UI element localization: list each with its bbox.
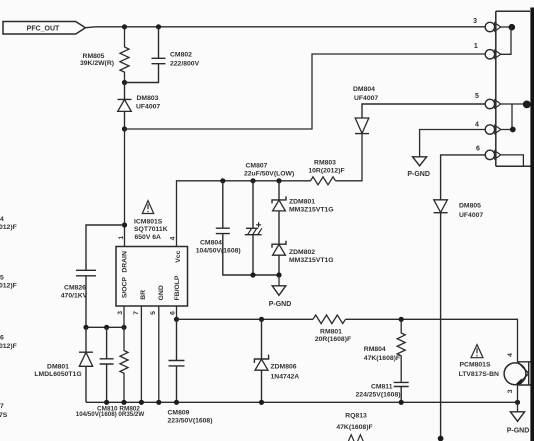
svg-text:6: 6 — [476, 146, 480, 153]
diode DM803 — [118, 83, 161, 130]
svg-text:ZDM802: ZDM802 — [289, 249, 315, 256]
label RQ813 — [336, 413, 372, 431]
zener diode ZDM801 — [272, 181, 334, 244]
svg-text:39K/2W(R): 39K/2W(R) — [80, 60, 114, 67]
capacitor CM807 electrolytic — [245, 181, 262, 275]
node junction FB pin — [174, 317, 179, 322]
svg-text:S/OCP: S/OCP — [122, 277, 129, 299]
svg-text:5: 5 — [475, 93, 479, 100]
resistor RM805 — [80, 27, 129, 83]
wire drain node to connector pin 1 — [125, 54, 486, 129]
svg-text:7: 7 — [133, 311, 140, 315]
svg-text:47K(1608)F: 47K(1608)F — [336, 424, 372, 431]
IC U801 ICM801S box — [116, 247, 188, 307]
wire drain node down to IC pin 1 — [124, 129, 126, 247]
node junction RM804 tap — [399, 317, 404, 322]
node junction CM811 bottom — [399, 400, 404, 405]
capacitor CM809 — [168, 319, 213, 424]
wire Vcc rail — [177, 181, 311, 247]
svg-text:10R(2012)F: 10R(2012)F — [308, 167, 344, 174]
svg-text:DM805: DM805 — [459, 203, 481, 210]
svg-text:UF4007: UF4007 — [354, 95, 378, 102]
svg-text:CM809: CM809 — [168, 410, 190, 417]
wire S/OCP rail — [86, 326, 124, 328]
warning triangle PCM801S — [471, 345, 483, 358]
warning triangle RQ813 b — [356, 435, 365, 441]
svg-text:CM811: CM811 — [371, 384, 393, 391]
svg-text:4: 4 — [0, 216, 4, 223]
svg-text:3: 3 — [507, 389, 514, 393]
node junction on PFC rail (RM805 tap) — [122, 24, 127, 29]
node junction pin4 link — [510, 127, 516, 133]
node junction DM801 top — [83, 325, 88, 330]
resistor RM804 — [364, 319, 405, 382]
warning triangle RQ813 a — [347, 435, 356, 441]
left edge clipped label fragments — [0, 216, 17, 419]
svg-text:DM803: DM803 — [137, 95, 159, 102]
svg-text:LMDL6050T1G: LMDL6050T1G — [34, 371, 81, 378]
svg-text:Vcc: Vcc — [175, 250, 182, 262]
svg-text:RQ813: RQ813 — [345, 413, 367, 420]
svg-text:MM3Z15VT1G: MM3Z15VT1G — [289, 207, 334, 214]
diode DM801 — [34, 327, 93, 402]
node junction zener chain bottom — [276, 272, 281, 277]
node junction opto pin3 / rail end — [515, 400, 520, 405]
svg-text:6: 6 — [0, 335, 4, 342]
svg-text:012)F: 012)F — [0, 283, 17, 290]
diode DM804 — [353, 86, 485, 133]
node junction CM807 tap — [250, 178, 255, 183]
pin 5 connector — [475, 93, 530, 109]
svg-text:ICM801S: ICM801S — [134, 218, 163, 225]
node junction on PFC rail (CM802 tap) — [156, 24, 161, 29]
svg-text:47K(1608)F: 47K(1608)F — [364, 355, 400, 362]
wire IC pin 3 stub — [123, 306, 125, 327]
ground P-GND below zener chain — [269, 275, 292, 308]
node junction CM810 top — [104, 325, 109, 330]
svg-text:UF4007: UF4007 — [459, 212, 483, 219]
svg-text:CM826: CM826 — [64, 285, 86, 292]
svg-text:20R(1608)F: 20R(1608)F — [315, 336, 351, 343]
svg-text:RM801: RM801 — [320, 329, 342, 336]
svg-text:22uF/50V(LOW): 22uF/50V(LOW) — [244, 171, 294, 178]
node junction pin3-pin1 link — [509, 24, 516, 31]
svg-text:4: 4 — [475, 122, 479, 129]
node junction at bottom of DM805 line — [438, 436, 444, 441]
svg-text:RM804: RM804 — [364, 346, 386, 353]
svg-text:104/50V(1608) 0R35/2W: 104/50V(1608) 0R35/2W — [76, 411, 145, 418]
svg-text:RM805: RM805 — [83, 53, 105, 60]
resistor RM802 — [120, 327, 128, 402]
node junction ZDM806 tap — [259, 317, 264, 322]
svg-text:ZDM801: ZDM801 — [289, 199, 315, 206]
svg-text:4: 4 — [507, 353, 514, 357]
capacitor CM811 — [356, 382, 409, 402]
svg-text:CM804: CM804 — [200, 239, 222, 246]
svg-text:RM803: RM803 — [314, 159, 336, 166]
svg-text:UF4007: UF4007 — [136, 103, 160, 110]
svg-text:DRAIN: DRAIN — [122, 251, 129, 273]
node junction CM810 bottom — [104, 400, 109, 405]
svg-text:012)F: 012)F — [0, 343, 17, 350]
wire RM803 to DM804 — [336, 134, 363, 181]
wire pin5 to pin4 link — [501, 104, 512, 130]
optocoupler PCM801S (photo-transistor side) — [504, 353, 534, 402]
net flag PFC_OUT — [3, 22, 85, 35]
node junction CM826 tap — [122, 222, 127, 227]
resistor RM803 — [308, 159, 344, 185]
svg-text:P-GND: P-GND — [269, 301, 292, 308]
wire IC pin 5 to bottom rail — [158, 306, 160, 402]
svg-text:SQT7011K: SQT7011K — [134, 226, 168, 233]
pin 6 connector — [476, 146, 523, 167]
node junction ZDM801 tap — [276, 178, 281, 183]
wire PFC_OUT rail to connector pin 3 — [85, 26, 485, 29]
svg-text:GND: GND — [158, 285, 165, 300]
svg-text:224/25V(1608): 224/25V(1608) — [356, 392, 401, 399]
ground P-GND pin 4 — [407, 157, 430, 178]
pin 4 connector — [475, 122, 501, 135]
svg-text:012)F: 012)F — [0, 224, 17, 231]
ground P-GND bottom right — [507, 402, 530, 434]
svg-text:3: 3 — [473, 18, 477, 25]
wire FB rail — [177, 318, 314, 320]
pin 3 connector — [473, 18, 511, 32]
capacitor CM826 — [61, 225, 125, 327]
svg-text:CM807: CM807 — [246, 163, 268, 170]
node drain junction — [122, 126, 127, 131]
svg-text:PCM801S: PCM801S — [460, 362, 491, 369]
IC labels ICM801S SQT7011K 650V 6A — [134, 218, 168, 241]
svg-text:650V 6A: 650V 6A — [135, 234, 162, 241]
node junction CM809 bottom — [174, 400, 179, 405]
svg-text:223/50V(1608): 223/50V(1608) — [168, 418, 213, 425]
wire bottom ground rail — [86, 401, 518, 403]
wire pin3 to pin1 link — [501, 27, 511, 54]
resistor RM801 — [313, 315, 351, 343]
svg-text:CM802: CM802 — [170, 52, 192, 59]
svg-text:470/1KV: 470/1KV — [61, 293, 88, 300]
node junction ZDM806 bottom — [259, 400, 264, 405]
svg-text:222/800V: 222/800V — [170, 60, 200, 67]
diode DM805 — [434, 155, 486, 441]
node junction pin3/RM802 — [121, 325, 126, 330]
capacitor CM810 — [100, 327, 114, 402]
svg-text:1: 1 — [474, 43, 478, 50]
svg-text:P-GND: P-GND — [507, 428, 530, 435]
svg-text:PFC_OUT: PFC_OUT — [27, 26, 60, 33]
svg-text:FB/OLP: FB/OLP — [174, 275, 181, 300]
pin 1 connector — [474, 43, 501, 59]
svg-text:1: 1 — [118, 236, 125, 240]
zener diode ZDM802 — [272, 241, 334, 275]
svg-text:5: 5 — [0, 274, 4, 281]
label PCM801S LTV817S-BN — [459, 362, 499, 378]
capacitor CM804 — [196, 181, 279, 275]
svg-text:ZDM806: ZDM806 — [271, 364, 297, 371]
svg-text:MM3Z15VT1G: MM3Z15VT1G — [289, 257, 334, 264]
wire IC pin 7 to bottom rail — [140, 306, 142, 402]
warning triangle above IC — [142, 201, 153, 214]
svg-text:104/50V(1608): 104/50V(1608) — [196, 247, 241, 254]
capacitor CM802 — [125, 27, 200, 83]
svg-text:7S: 7S — [0, 412, 8, 419]
svg-text:P-GND: P-GND — [407, 171, 430, 178]
wire pin4 to P-GND — [420, 130, 486, 157]
svg-text:DM801: DM801 — [47, 364, 69, 371]
node junction pin5 bottom — [156, 400, 161, 405]
connector body — [496, 11, 534, 166]
transformer bar — [530, 8, 534, 441]
svg-text:1N4742A: 1N4742A — [271, 373, 300, 380]
zener diode ZDM806 — [254, 319, 299, 402]
node junction CM804 tap — [220, 178, 225, 183]
node junction pin7 bottom — [139, 400, 144, 405]
node junction CM807 bottom — [250, 272, 255, 277]
svg-text:6: 6 — [169, 311, 176, 315]
node junction RM802 bottom — [121, 400, 126, 405]
svg-text:3: 3 — [117, 311, 124, 315]
svg-text:DM804: DM804 — [353, 86, 375, 93]
svg-text:7: 7 — [0, 403, 4, 410]
wire IC pin 6 stub — [176, 306, 178, 319]
node junction pin5 to bar — [523, 101, 531, 109]
label CM807 — [244, 163, 294, 178]
node junction RM805/CM802/DM803 — [122, 80, 127, 85]
svg-text:4: 4 — [169, 236, 176, 240]
svg-text:LTV817S-BN: LTV817S-BN — [459, 371, 499, 378]
svg-text:5: 5 — [150, 311, 157, 315]
wire RM801 to opto — [346, 319, 518, 362]
svg-text:BR: BR — [140, 290, 147, 300]
